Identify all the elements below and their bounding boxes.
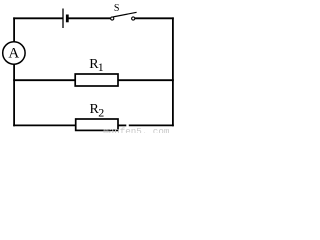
svg-text:S: S [114,3,120,14]
svg-text:1: 1 [98,60,104,74]
svg-text:A: A [8,46,19,62]
svg-text:2: 2 [98,106,104,120]
svg-text:manfen5. com: manfen5. com [103,126,170,133]
